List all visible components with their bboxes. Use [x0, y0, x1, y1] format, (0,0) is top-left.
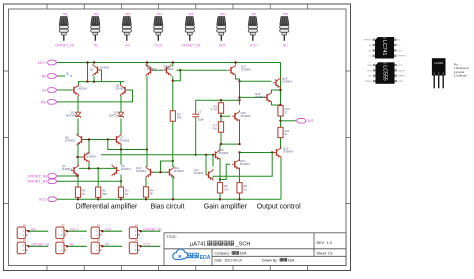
- sheet inner border: [9, 9, 347, 266]
- wire Q8 collector: [120, 82, 122, 84]
- wire Q7R to Q6 collector: [120, 144, 122, 165]
- svg-text:7.5K: 7.5K: [211, 127, 217, 131]
- test point TP1: [59, 12, 68, 41]
- junction: [234, 61, 236, 63]
- wire to R6: [220, 100, 222, 103]
- diode D1: [75, 112, 80, 118]
- wire to OUT port: [281, 120, 297, 122]
- transistor Q16: [232, 158, 240, 170]
- svg-text:2N3904: 2N3904: [174, 169, 184, 173]
- junction: [219, 178, 221, 180]
- junction: [220, 99, 222, 101]
- wire VCC- bottom rail: [58, 198, 282, 200]
- transistor Q18: [264, 91, 272, 103]
- junction: [107, 138, 109, 140]
- svg-text:1K: 1K: [125, 192, 129, 196]
- wire Q11 emitter to rail: [172, 177, 174, 200]
- wire IN+ to Q8 base: [57, 90, 132, 102]
- wire rail to collector row left: [87, 63, 89, 82]
- wire Q15 collector: [239, 100, 241, 105]
- capacitor C1: [192, 114, 199, 117]
- resistor R5: [170, 111, 182, 121]
- svg-text:EDA: EDA: [288, 258, 296, 262]
- wire OFFSET_N1: [58, 175, 78, 177]
- svg-text:2N3906: 2N3906: [164, 67, 174, 71]
- wire Q2-Q6 base row: [79, 167, 117, 169]
- wire Q18 collector: [271, 90, 280, 93]
- wire connector P4 net: [140, 230, 160, 232]
- svg-text:2N3906: 2N3906: [100, 66, 110, 70]
- svg-text:3.Cathode: 3.Cathode: [454, 74, 467, 78]
- wire mirror base to Q10 collector: [108, 140, 147, 150]
- svg-text:VCC-: VCC-: [39, 198, 47, 202]
- transistor Q15: [232, 110, 240, 122]
- junction: [88, 167, 90, 169]
- svg-text:2N3904: 2N3904: [255, 95, 265, 99]
- resistor R10: [278, 106, 290, 116]
- wire R9 to rail: [239, 193, 241, 199]
- wire Q5 base tie: [98, 70, 102, 82]
- junction: [238, 96, 240, 98]
- svg-text:2N3906: 2N3906: [120, 138, 130, 142]
- wire Q13 collector lead: [212, 176, 214, 178]
- junction: [145, 198, 147, 200]
- svg-text:EDA: EDA: [240, 252, 248, 256]
- junction: [93, 61, 95, 63]
- test point TP6: [217, 12, 226, 41]
- resistor R2: [96, 187, 108, 197]
- wire Q9 base to Q12: [152, 69, 163, 71]
- svg-text:CTRL: CTRL: [398, 81, 404, 83]
- svg-text:VCC+: VCC+: [38, 61, 47, 65]
- junction: [97, 167, 99, 169]
- wire R1 to rail: [77, 197, 79, 199]
- junction: [279, 120, 281, 122]
- wire connector P2 net: [66, 230, 86, 232]
- wire Q5 collector down: [93, 76, 95, 81]
- resistor R7: [211, 122, 223, 132]
- wire connector P5 net: [28, 245, 48, 247]
- transistor Q10: [146, 166, 154, 178]
- junction connector P5: [27, 245, 29, 247]
- junction: [238, 151, 240, 153]
- wire C1 bottom lead: [195, 117, 197, 154]
- resistor R6: [211, 103, 224, 113]
- transistor Q9: [146, 64, 154, 76]
- junction: [76, 156, 78, 158]
- junction: [93, 80, 95, 82]
- svg-text:OUT: OUT: [368, 76, 373, 78]
- svg-text:NC: NC: [397, 40, 401, 42]
- junction: [220, 115, 222, 117]
- svg-text:2N3906: 2N3906: [65, 138, 75, 142]
- junction: [88, 138, 90, 140]
- junction: [146, 61, 148, 63]
- junction connector P2: [66, 230, 68, 232]
- test point TP4: [154, 12, 163, 41]
- junction connector P7: [101, 245, 103, 247]
- transistor Q7: [114, 134, 122, 146]
- svg-text:2N3904: 2N3904: [86, 155, 96, 159]
- svg-text:RESET: RESET: [365, 81, 373, 83]
- svg-text:TP7: TP7: [251, 12, 257, 16]
- svg-text:2N3904: 2N3904: [62, 167, 72, 171]
- test point TP5: [185, 12, 194, 41]
- svg-text:2N3904: 2N3904: [219, 151, 229, 155]
- transistor Q17: [228, 64, 236, 76]
- svg-text:IN-: IN-: [94, 44, 98, 48]
- wire to Q19 base: [240, 80, 272, 82]
- svg-text:TP2: TP2: [94, 12, 100, 16]
- diode D2: [118, 112, 123, 118]
- wire D1 to Q5L: [77, 118, 79, 135]
- svg-text:OFFSET: OFFSET: [363, 40, 372, 42]
- connector P1 (NC): [17, 224, 28, 238]
- wire Q16 collector: [239, 153, 241, 162]
- svg-text:Q5: Q5: [90, 68, 94, 72]
- junction OFFSET_N2/Q6 emitter: [120, 180, 122, 182]
- svg-text:51: 51: [285, 132, 289, 136]
- svg-text:VCC-: VCC-: [155, 44, 163, 48]
- LC431 pin legend: [454, 63, 470, 78]
- wire Q20 base to Q13 collector: [213, 153, 272, 177]
- wire Q4 emitter: [88, 161, 90, 169]
- sheet outer border: [4, 4, 351, 271]
- resistor R1: [75, 187, 86, 197]
- wire Q20 emitter to rail: [280, 157, 282, 200]
- wire Q16 emitter to R9: [239, 168, 241, 183]
- resistor R11: [278, 127, 290, 137]
- junction: [172, 160, 174, 162]
- wire VCC+ top rail: [57, 62, 281, 64]
- junction: [219, 198, 221, 200]
- wire right column top: [280, 63, 282, 106]
- port OUT: [296, 119, 314, 124]
- port VCC-: [39, 197, 58, 202]
- junction connector P8: [139, 245, 141, 247]
- wire to Q13 base: [205, 155, 207, 175]
- transistor Q13: [206, 169, 214, 181]
- transistor Q20: [274, 147, 282, 159]
- wire Q14 emitter to R8: [219, 158, 221, 183]
- svg-text:27: 27: [285, 110, 289, 114]
- svg-text:C1: C1: [198, 109, 202, 113]
- transistor Q4: [82, 151, 90, 163]
- wire R6 to R7: [220, 113, 222, 122]
- wire Q14 collector: [219, 144, 221, 151]
- junction: [238, 198, 240, 200]
- junction: [97, 198, 99, 200]
- svg-text:DISCH: DISCH: [398, 70, 405, 72]
- wire NC stub: [57, 75, 65, 77]
- transistor Q11: [167, 166, 175, 178]
- wire connector P1 net: [28, 230, 48, 232]
- svg-text:Sheet: 1/1: Sheet: 1/1: [317, 252, 333, 256]
- svg-text:Company:: Company:: [215, 252, 232, 256]
- wire OFFSET_N2: [58, 180, 122, 182]
- port OFFSET_N1: [27, 174, 57, 179]
- svg-text:OFFSET_N1: OFFSET_N1: [55, 44, 74, 48]
- svg-text:BAT54: BAT54: [109, 114, 118, 118]
- svg-text:30pF: 30pF: [198, 117, 205, 121]
- connector P4 (OFFSET_N2): [129, 224, 140, 238]
- wire Q17 emitter to rail: [235, 63, 237, 65]
- svg-text:OFFSET: OFFSET: [397, 56, 406, 58]
- wire Q18 emitter: [271, 101, 280, 105]
- junction: [146, 148, 148, 150]
- junction connector P6: [66, 245, 68, 247]
- svg-text:TP4: TP4: [157, 12, 163, 16]
- connector P2 (VCC+): [56, 224, 67, 238]
- wire gain input row: [101, 154, 213, 156]
- wire Q11 base loop: [161, 161, 173, 172]
- port IN-: [42, 88, 57, 93]
- junction: [77, 198, 79, 200]
- wire Q1 emitter to D1: [77, 96, 79, 112]
- svg-text:VCC+: VCC+: [70, 227, 79, 231]
- junction: [172, 198, 174, 200]
- svg-text:OFFSET_N1: OFFSET_N1: [27, 174, 47, 178]
- wire Q5L-Q7R base row: [82, 139, 117, 141]
- transistor Q6: [112, 164, 120, 176]
- transistor Q19: [273, 77, 281, 89]
- junction: [159, 171, 161, 173]
- svg-text:1K: 1K: [82, 192, 86, 196]
- svg-text:IN+: IN+: [105, 243, 110, 247]
- svg-text:µA741: µA741: [190, 242, 206, 248]
- wire Q12 collector to R5: [172, 76, 174, 111]
- svg-text:VCC+: VCC+: [249, 44, 258, 48]
- svg-text:IN+: IN+: [41, 100, 46, 104]
- svg-text:2N3906: 2N3906: [147, 67, 157, 71]
- svg-text:50K: 50K: [102, 192, 107, 196]
- svg-text:NC: NC: [31, 227, 36, 231]
- svg-text:BAT54: BAT54: [66, 114, 75, 118]
- wire R10 to R11: [280, 116, 282, 127]
- svg-text:NC: NC: [42, 74, 47, 78]
- transistor Q1: [71, 84, 79, 96]
- svg-text:LC431: LC431: [434, 61, 443, 65]
- wire connector P3 net: [102, 230, 122, 232]
- svg-text:50: 50: [244, 187, 248, 191]
- transistor Q8: [121, 84, 129, 96]
- svg-text:GND: GND: [367, 65, 372, 67]
- resistor R3: [118, 187, 129, 197]
- svg-text:IN+: IN+: [125, 44, 130, 48]
- svg-text:IN-: IN-: [369, 45, 372, 47]
- svg-text:Bias circuit: Bias circuit: [151, 204, 185, 211]
- svg-text:2N3904: 2N3904: [121, 167, 131, 171]
- junction: [195, 154, 197, 156]
- svg-text:B: B: [67, 72, 69, 76]
- wire R2 to rail: [97, 197, 99, 199]
- wire bias to Q17 base: [180, 69, 227, 71]
- wire Q18 base: [240, 96, 268, 98]
- svg-text:39K: 39K: [177, 116, 182, 120]
- junction: [86, 61, 88, 63]
- wire Q12 base loop: [173, 70, 181, 81]
- svg-text:OFFSET_N2: OFFSET_N2: [181, 44, 200, 48]
- junction: [279, 104, 281, 106]
- svg-text:2N3906: 2N3906: [194, 171, 204, 175]
- wire Q13 emitter up: [212, 155, 214, 167]
- wire Q9 collector to Q10: [146, 76, 148, 149]
- junction: [238, 143, 240, 145]
- svg-text:2N3904: 2N3904: [240, 162, 250, 166]
- junction: [271, 151, 273, 153]
- connector P3 (OUT): [91, 224, 102, 238]
- svg-text:Date: 2021-09-10: Date: 2021-09-10: [215, 258, 242, 262]
- wire Q6 emitter to R3: [120, 175, 122, 187]
- svg-text:OUT: OUT: [105, 227, 112, 231]
- test point TP8: [280, 12, 289, 41]
- svg-text:THRES: THRES: [398, 76, 406, 78]
- LCEDA logo: [173, 249, 211, 261]
- svg-text:REV: 1.0: REV: 1.0: [317, 241, 332, 245]
- frame tick marks: [4, 4, 351, 271]
- svg-text:2N3904: 2N3904: [282, 80, 292, 84]
- junction: [238, 99, 240, 101]
- wire Q1 collector: [78, 82, 80, 84]
- wire Q2 emitter to R1: [77, 175, 79, 187]
- wire C1 top lead: [195, 100, 197, 113]
- wire R11 to Q20: [280, 138, 282, 149]
- svg-text:TP5: TP5: [188, 12, 194, 16]
- transistor Q14: [213, 149, 221, 161]
- svg-text:_SCH: _SCH: [235, 242, 251, 248]
- wire Q10 emitter to R4: [145, 177, 147, 187]
- wire Q4 base: [78, 156, 85, 158]
- IC package LC741 (DIP-8): [363, 37, 406, 59]
- junction: [179, 69, 181, 71]
- wire Q10-Q11 base row: [151, 171, 169, 173]
- svg-text:LC555: LC555: [382, 65, 388, 80]
- svg-text:2N3904: 2N3904: [77, 87, 87, 91]
- junction connector P1: [27, 230, 29, 232]
- svg-text:VCC: VCC: [398, 65, 403, 67]
- svg-text:IN-: IN-: [42, 88, 47, 92]
- svg-text:OUT: OUT: [307, 119, 314, 123]
- svg-text:4.7M: 4.7M: [211, 108, 218, 112]
- svg-text:NC: NC: [283, 44, 288, 48]
- svg-text:OFFSET_N2: OFFSET_N2: [143, 227, 162, 231]
- svg-text:2N3906: 2N3906: [241, 68, 251, 72]
- svg-text:LC741: LC741: [381, 40, 387, 55]
- junction: [220, 143, 222, 145]
- junction: [212, 154, 214, 156]
- IC package LC555 (DIP-8): [365, 62, 405, 84]
- wire Q16 base to R8 top: [220, 164, 230, 179]
- svg-text:OFFSET_N2: OFFSET_N2: [27, 180, 47, 184]
- svg-text:IN-: IN-: [70, 243, 74, 247]
- svg-text:TP6: TP6: [220, 12, 226, 16]
- wire Q15 emitter down: [239, 120, 241, 145]
- wire to Q10 collector: [146, 150, 148, 168]
- wire Q8 emitter to D2: [120, 96, 122, 112]
- wire Q4 collector up: [88, 140, 90, 155]
- junction: [86, 80, 88, 82]
- svg-text:TP3: TP3: [125, 12, 131, 16]
- svg-text:2N3906: 2N3906: [283, 150, 293, 154]
- title block text: [167, 235, 333, 262]
- port IN+: [41, 100, 57, 105]
- svg-text:2N3904: 2N3904: [241, 114, 251, 118]
- wire Q1-Q8 collector row: [78, 81, 124, 83]
- test point TP3: [122, 12, 131, 41]
- transistor Q12: [164, 64, 172, 76]
- svg-text:V-: V-: [370, 56, 372, 58]
- wire Q9 emitter to rail: [146, 63, 148, 67]
- junction OFFSET_N1/Q2 emitter: [76, 175, 78, 177]
- wire Q12 emitter to rail: [172, 63, 174, 67]
- junction: [205, 154, 207, 156]
- svg-text:OUT: OUT: [219, 44, 226, 48]
- svg-text:TP8: TP8: [283, 12, 289, 16]
- wire R8 to rail: [219, 193, 221, 199]
- wire down to comp node: [239, 81, 241, 100]
- resistor R8: [217, 183, 229, 193]
- wire Q17 collector: [236, 76, 240, 81]
- connector P5 (OFFSET_N1): [17, 240, 28, 254]
- wire IN- to Q1 base: [57, 89, 71, 91]
- svg-text:VCC-: VCC-: [143, 243, 151, 247]
- wire connector P8 net: [140, 245, 160, 247]
- IC package LC431 (TO-92): [432, 58, 446, 88]
- wire Q5L to Q2 collector: [77, 144, 79, 166]
- port OFFSET_N2: [27, 179, 57, 184]
- resistor R4: [143, 187, 154, 197]
- wire output driver row: [220, 143, 240, 145]
- svg-text:TRIG: TRIG: [367, 70, 372, 72]
- connector P7 (IN+): [91, 240, 102, 254]
- transistor Q5 (top PNP): [93, 64, 101, 76]
- svg-text:2N3904: 2N3904: [136, 169, 146, 173]
- port VCC+: [38, 60, 58, 65]
- svg-text:Differential amplifier: Differential amplifier: [76, 204, 138, 211]
- wire compensation node row: [196, 99, 240, 101]
- test point TP2: [91, 12, 100, 41]
- svg-text:Drawn By:: Drawn By:: [262, 258, 279, 262]
- svg-text:Output control: Output control: [257, 204, 301, 211]
- wire to Q20 base: [240, 152, 275, 154]
- wire to Q11 collector: [172, 161, 174, 167]
- svg-text:5K: 5K: [150, 192, 154, 196]
- transistor Q2: [71, 164, 79, 176]
- junction: [172, 61, 174, 63]
- svg-text:TITLE:: TITLE:: [167, 235, 177, 239]
- svg-text:OUT: OUT: [397, 50, 402, 52]
- junction connector P3: [101, 230, 103, 232]
- wire R5 to Q11: [172, 121, 174, 161]
- port NC: [42, 74, 57, 79]
- junction: [238, 80, 240, 82]
- connector P6 (IN-): [56, 240, 67, 254]
- junction: [120, 148, 122, 150]
- wire D2 to Q7R: [120, 118, 122, 135]
- wire connector P7 net: [102, 245, 122, 247]
- wire R3 to rail: [120, 197, 122, 199]
- transistor Q5L mirror: [77, 134, 85, 146]
- svg-text:2N3904: 2N3904: [116, 87, 126, 91]
- svg-text:TP1: TP1: [62, 12, 68, 16]
- wire to R2: [97, 168, 99, 187]
- junction connector P4: [139, 230, 141, 232]
- svg-text:EDA: EDA: [200, 255, 211, 261]
- junction: [120, 198, 122, 200]
- wire connector P6 net: [66, 245, 86, 247]
- wire R7 down: [220, 132, 222, 144]
- junction: [172, 80, 174, 82]
